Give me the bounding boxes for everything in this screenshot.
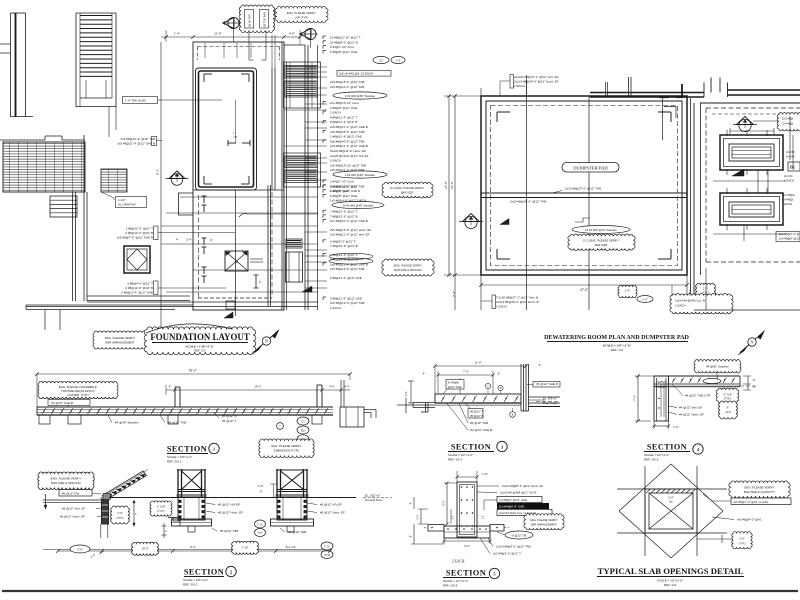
svg-text:(TYP.): (TYP.) <box>739 543 746 546</box>
svg-text:SECTION: SECTION <box>446 569 486 578</box>
svg-text:5 #8@8" @12" OAE: 5 #8@8" @12" OAE <box>330 194 357 198</box>
svg-text:1'-4": 1'-4" <box>625 289 630 293</box>
svg-text:#5 @12" H/V EF: #5 @12" H/V EF <box>320 503 342 507</box>
plan outer rect <box>193 42 284 310</box>
svg-text:2'-0": 2'-0" <box>739 537 744 541</box>
svg-text:2'-1": 2'-1" <box>416 514 420 519</box>
svg-text:REF: 2/S-2: REF: 2/S-2 <box>167 459 182 463</box>
svg-text:1'-0: 1'-0 <box>396 58 401 62</box>
svg-text:#5 @12" T&B: #5 @12" T&B <box>288 530 306 534</box>
svg-text:7 #8@12'-6" @12" T: 7 #8@12'-6" @12" T <box>330 210 358 214</box>
svg-text:1 EACH: 1 EACH <box>514 84 525 88</box>
svg-text:(5) @12" OAE B: (5) @12" OAE B <box>536 382 558 386</box>
section4 standee cloud <box>694 360 741 373</box>
svg-text:4x3 #8@7'-0" @A1 (1 side): 4x3 #8@7'-0" @A1 (1 side) <box>733 500 768 504</box>
svg-text:ENG. PLEASE VERIFY: ENG. PLEASE VERIFY <box>394 264 422 268</box>
svg-text:#5 @12" Horiz. EF: #5 @12" Horiz. EF <box>320 511 345 515</box>
dewatering bottom cloud <box>696 283 716 296</box>
pad black triangle <box>500 219 509 225</box>
svg-text:2x7 #8@11'-4" @12" OAE B: 2x7 #8@11'-4" @12" OAE B <box>330 219 368 223</box>
section5 bottom dim <box>444 540 490 542</box>
pad cloud verify <box>568 234 635 251</box>
svg-text:3x5 (4) #A5 @4. 15 EACH: 3x5 (4) #A5 @4. 15 EACH <box>339 72 373 76</box>
section4 cloud chain <box>716 388 739 403</box>
svg-text:Brick Ledge: Brick Ledge <box>543 401 558 405</box>
svg-text:2 #4@7'-10" Cont.: 2 #4@7'-10" Cont. <box>330 45 355 49</box>
svg-text:2x5 #8@12'-6" @12" TAB: 2x5 #8@12'-6" @12" TAB <box>330 267 364 271</box>
svg-text:2x5 #8@12'-6" @12" TAB: 2x5 #8@12'-6" @12" TAB <box>330 301 364 305</box>
section1 sub dims <box>166 389 350 391</box>
dewatering bottom notes cloud <box>670 294 733 315</box>
oval standee note 3 <box>332 201 384 208</box>
svg-text:ENG. PLEASE VERIFY: ENG. PLEASE VERIFY <box>105 336 135 340</box>
section2 step corner <box>168 517 180 519</box>
svg-text:3 #8@4'-6" @12" T: 3 #8@4'-6" @12" T <box>127 282 153 286</box>
svg-text:21'-8": 21'-8" <box>450 181 454 189</box>
dewatering bottom dashed <box>694 309 800 311</box>
svg-text:ENG. PLEASE VERIFY: ENG. PLEASE VERIFY <box>51 477 81 481</box>
svg-text:10 #8@12'-10" @12" T: 10 #8@12'-10" @12" T <box>330 36 361 40</box>
section1 cloud verify dimension <box>259 439 314 458</box>
svg-text:REF: S-2: REF: S-2 <box>194 349 206 353</box>
stair ladder top <box>75 13 77 107</box>
section4 left dim <box>637 376 639 421</box>
cloud verify bar arrangement title <box>93 331 147 349</box>
left margin ticks <box>0 43 11 45</box>
section1 wall stub A <box>174 387 176 407</box>
rebar cluster box 2 <box>284 153 321 187</box>
section5 right wing <box>490 525 504 532</box>
svg-text:1x8 #8@11'-4" @12" OAE B: 1x8 #8@11'-4" @12" OAE B <box>330 262 368 266</box>
pit vertical centerline <box>235 100 237 143</box>
svg-text:#5 @12" EW: #5 @12" EW <box>62 491 79 495</box>
svg-text:7'-6": 7'-6" <box>633 395 637 401</box>
svg-text:8 #8@11'-4" @12" B: 8 #8@11'-4" @12" B <box>330 120 357 124</box>
section1 wall stub B <box>316 385 318 407</box>
dewatering dashed boundary <box>706 107 800 109</box>
ovals around two rows <box>329 253 373 259</box>
svg-text:T-2x20 #8@27'-1" @12" Vert. B: T-2x20 #8@27'-1" @12" Vert. B <box>496 296 538 300</box>
pad vertical line <box>526 80 528 310</box>
pad1 top dim line <box>730 130 774 132</box>
X column pad in plan <box>225 251 248 271</box>
svg-text:4 #8@12'-6" @12" T: 4 #8@12'-6" @12" T <box>330 253 358 257</box>
rebar cluster box 1 <box>284 62 321 108</box>
svg-text:2'-0": 2'-0" <box>642 297 647 301</box>
cloud verify lap <box>275 6 328 22</box>
section1 wall stub C <box>340 380 342 407</box>
section1 footing stubs <box>39 415 50 424</box>
svg-text:G.C./ENG. PLEASE VERIFY: G.C./ENG. PLEASE VERIFY <box>390 186 425 190</box>
svg-text:#5 @12" TAB: #5 @12" TAB <box>470 421 488 425</box>
svg-text:27'-4": 27'-4" <box>580 288 588 292</box>
svg-text:10 #8@8'-0" @12" B: 10 #8@8'-0" @12" B <box>330 40 358 44</box>
svg-text:1 EACH: 1 EACH <box>330 111 341 115</box>
svg-text:7'-10": 7'-10" <box>241 546 248 550</box>
svg-text:Sq.: Sq. <box>669 500 673 504</box>
svg-text:2x2x3 #4 @A05 Cov. B: 2x2x3 #4 @A05 Cov. B <box>675 299 705 303</box>
plan interior horizontals <box>193 189 284 191</box>
section5 top dim <box>457 476 477 478</box>
svg-text:#5 @12" B: #5 @12" B <box>222 414 236 418</box>
svg-text:COATED (TYP.): COATED (TYP.) <box>67 393 88 397</box>
svg-text:6": 6" <box>260 490 263 494</box>
svg-text:3 #8@12'-6" @12" B: 3 #8@12'-6" @12" B <box>125 286 153 290</box>
pit corner ticks <box>204 73 212 75</box>
svg-text:11'-0": 11'-0" <box>214 32 221 36</box>
svg-text:2 #8@8" @12" OAE: 2 #8@8" @12" OAE <box>330 106 357 110</box>
sump pit rounded rect <box>196 68 257 190</box>
svg-text:#5 @12" T: #5 @12" T <box>222 419 236 423</box>
small grating <box>101 169 127 192</box>
svg-text:2x2 #8: 2x2 #8 <box>786 150 795 154</box>
svg-text:SECTION: SECTION <box>167 445 207 454</box>
svg-text:ENG. PLEASE VERIFY: ENG. PLEASE VERIFY <box>744 486 774 490</box>
section3 boxed labels top <box>446 380 464 390</box>
extension stubs above wall <box>605 82 607 97</box>
svg-text:2x5 #8@15'-10" @12" TAB: 2x5 #8@15'-10" @12" TAB <box>330 163 366 167</box>
DE label right edge <box>788 162 800 171</box>
svg-text:11": 11" <box>481 515 485 519</box>
section4 bottom dim <box>654 425 669 427</box>
slab detail grid lines <box>617 488 727 490</box>
section2 ground line left <box>43 499 102 501</box>
svg-text:2x3 #4: 2x3 #4 <box>784 174 793 178</box>
wall above dumpster <box>590 92 704 94</box>
pad standee oval <box>572 226 630 234</box>
svg-text:ENG. PLEASE VERIFY: ENG. PLEASE VERIFY <box>271 444 301 448</box>
svg-text:BAR SIZE & SPACING: BAR SIZE & SPACING <box>51 481 81 485</box>
section1 circle chain <box>297 417 309 425</box>
section diamond top1 <box>228 17 239 28</box>
svg-text:#4 @12" Vert. EF: #4 @12" Vert. EF <box>679 406 702 410</box>
svg-text:3 #8@12'-6" @12" B: 3 #8@12'-6" @12" B <box>330 258 358 262</box>
svg-text:EL: 559'+6": EL: 559'+6" <box>543 397 557 401</box>
svg-text:16 #1 #A5 @45° Standee: 16 #1 #A5 @45° Standee <box>585 228 617 232</box>
vertical rebar label boxes top cloud <box>239 5 275 33</box>
svg-text:(5) @12" OAE B: (5) @12" OAE B <box>51 401 73 405</box>
svg-text:REF: 3/S-2: REF: 3/S-2 <box>183 582 198 586</box>
pad top extension lines <box>480 88 482 96</box>
svg-text:3x5 #8@7'-6" @12" OAE B: 3x5 #8@7'-6" @12" OAE B <box>117 236 153 240</box>
DUMPSTER PAD label <box>562 163 619 173</box>
north arrow left <box>255 331 279 352</box>
section2 ground continues <box>43 549 332 551</box>
svg-text:2x4 #8@8" @12" B: 2x4 #8@8" @12" B <box>779 237 800 241</box>
section marker diamond left <box>166 178 189 180</box>
slab detail diamond <box>619 464 671 511</box>
svg-text:4x2x8 (8) 5x21 @12" S/V EF: 4x2x8 (8) 5x21 @12" S/V EF <box>330 154 369 158</box>
svg-text:SECTION: SECTION <box>647 443 687 452</box>
svg-text:1 #8@11'-4" @12" OAE: 1 #8@11'-4" @12" OAE <box>330 135 362 139</box>
svg-text:7'-0": 7'-0" <box>117 511 123 515</box>
svg-text:4 #1 #A5 @45° Standee: 4 #1 #A5 @45° Standee <box>345 173 376 177</box>
left dim extent line <box>160 42 162 330</box>
svg-text:2x5 #8@26'-6" @12" TAB: 2x5 #8@26'-6" @12" TAB <box>330 130 364 134</box>
diamond-in-square pad <box>124 246 150 273</box>
svg-text:1'-4": 1'-4" <box>174 32 180 36</box>
svg-text:1 EACH: 1 EACH <box>496 305 507 309</box>
svg-text:16'-2": 16'-2" <box>254 385 261 389</box>
svg-text:1 EACH: 1 EACH <box>784 179 794 183</box>
svg-text:3'-6": 3'-6" <box>464 544 470 548</box>
svg-text:2x3 #8@5'-6" @12" T: 2x3 #8@5'-6" @12" T <box>493 552 521 556</box>
svg-text:8'-4": 8'-4" <box>190 545 196 549</box>
large grating top-left <box>3 142 85 192</box>
svg-text:Sq: Sq <box>235 260 239 264</box>
section1 slab <box>37 406 333 408</box>
svg-text:7'-2": 7'-2" <box>463 370 469 374</box>
svg-text:REF: S-5: REF: S-5 <box>611 348 624 352</box>
section5 left dims <box>446 483 448 524</box>
svg-text:7 #8@12'-6" @12" B: 7 #8@12'-6" @12" B <box>330 214 358 218</box>
section5 oval T/B <box>505 531 533 539</box>
section4 right dims <box>747 376 749 390</box>
section2 tower A <box>177 469 179 497</box>
svg-text:2" CLR: 2" CLR <box>157 505 166 509</box>
svg-text:11": 11" <box>451 515 455 519</box>
svg-text:#5 @12" T: #5 @12" T <box>470 410 484 414</box>
svg-text:2x5 #8@11'-4" @12" OAE B: 2x5 #8@11'-4" @12" OAE B <box>330 144 368 148</box>
section3 left dim <box>410 381 412 403</box>
dewatering diamond marker <box>733 124 757 126</box>
svg-text:2x5 #8@12'-6" @12" TAB: 2x5 #8@12'-6" @12" TAB <box>121 137 155 141</box>
section3 top dims <box>435 365 526 367</box>
oval standee note 2 <box>333 171 387 178</box>
dewatering room top line <box>700 102 800 104</box>
AL GRATING label <box>101 192 114 198</box>
svg-text:2x2 #8@4: 2x2 #8@4 <box>782 193 795 197</box>
svg-text:1 EACH: 1 EACH <box>330 159 341 163</box>
svg-text:2" CL: 2" CL <box>257 523 264 526</box>
svg-text:4": 4" <box>423 372 426 376</box>
svg-text:2x4 #8@: 2x4 #8@ <box>782 122 793 126</box>
svg-text:#4 @12" T&B CTR: #4 @12" T&B CTR <box>685 394 711 398</box>
svg-text:1 1/2": 1 1/2" <box>118 198 126 202</box>
svg-text:BAR SIZE & SPACING: BAR SIZE & SPACING <box>394 268 421 272</box>
section4 slab <box>654 375 740 377</box>
section2 vert dim <box>133 501 135 526</box>
plan top dimension line <box>161 36 301 38</box>
svg-text:2x5 #8@12'-6" @12" TAB: 2x5 #8@12'-6" @12" TAB <box>330 185 364 189</box>
svg-text:BAR ARRANGEMENT: BAR ARRANGEMENT <box>531 523 558 527</box>
section3 labels below <box>468 409 483 419</box>
plan right wall verticals <box>271 68 273 190</box>
svg-text:FOUNDATION LAYOUT: FOUNDATION LAYOUT <box>150 332 249 342</box>
svg-text:2x2x20 #8@27'-1" @12" Vert. EF: 2x2x20 #8@27'-1" @12" Vert. EF <box>514 75 559 79</box>
plan left notch <box>179 193 194 215</box>
svg-text:6": 6" <box>169 385 172 389</box>
svg-text:C1: C1 <box>301 419 305 423</box>
boxed note 3x5 <box>337 71 391 77</box>
dewatering inter-pad lines <box>713 180 786 182</box>
svg-text:DEWATERING ROOM PLAN AND DUMPS: DEWATERING ROOM PLAN AND DUMPSTER PAD <box>544 335 689 341</box>
svg-text:ENG. PLEASE VERIFY: ENG. PLEASE VERIFY <box>530 518 558 522</box>
svg-text:LAP (TYP.): LAP (TYP.) <box>295 15 309 19</box>
svg-text:#5 @12" B: #5 @12" B <box>470 414 484 418</box>
svg-text:1 EACH: 1 EACH <box>330 306 341 310</box>
svg-text:3 #8@11'-4" @12" OAE: 3 #8@11'-4" @12" OAE <box>121 291 153 295</box>
svg-text:#5 @12" Horiz. EF: #5 @12" Horiz. EF <box>60 515 85 519</box>
svg-text:(5) @12" OAE B: (5) @12" OAE B <box>470 428 492 432</box>
pads tick marks <box>726 130 728 136</box>
rebar tick symbols on dashed line <box>203 196 205 203</box>
svg-text:SCALE = 1/8"=1'-0": SCALE = 1/8"=1'-0" <box>603 344 632 348</box>
svg-text:3 #8@12'-6" @12" T: 3 #8@12'-6" @12" T <box>126 227 154 231</box>
svg-text:2x5 #8@15'-6" @12" Horiz. EF: 2x5 #8@15'-6" @12" Horiz. EF <box>330 228 371 232</box>
svg-text:EL: 552'+6": EL: 552'+6" <box>365 494 380 498</box>
black triangle below plan <box>224 312 233 318</box>
dumpster pad dashed inner <box>491 106 678 266</box>
svg-text:1'-6": 1'-6" <box>404 391 408 397</box>
dewatering door jambs <box>703 83 705 98</box>
slab detail square <box>645 489 697 533</box>
svg-text:Ground Floor: Ground Floor <box>365 498 383 502</box>
svg-text:5x8 #8@40'-6" @12" TAB: 5x8 #8@40'-6" @12" TAB <box>330 139 364 143</box>
svg-text:(4) #8@2" @12" OAE: (4) #8@2" @12" OAE <box>499 498 527 502</box>
svg-text:SECTION: SECTION <box>451 443 491 452</box>
pad mid horizontal line <box>481 192 687 194</box>
pad section diamond left <box>459 221 483 223</box>
svg-text:CLR: CLR <box>725 410 730 414</box>
section2 cloud chain right <box>321 542 333 550</box>
section2 P GR cloud <box>150 501 172 516</box>
plan bottom lines <box>87 301 318 303</box>
svg-text:(TYP.): (TYP.) <box>724 397 731 401</box>
left building wall verticals <box>72 192 74 301</box>
section3 slab <box>435 394 521 403</box>
north arrow right <box>740 332 764 353</box>
svg-text:2 EACH: 2 EACH <box>452 560 465 564</box>
svg-text:2" CL: 2" CL <box>324 545 331 548</box>
svg-text:5'-6": 5'-6" <box>442 500 446 506</box>
svg-text:11'-0": 11'-0" <box>474 361 481 365</box>
wall triple line top-left <box>10 13 12 117</box>
svg-text:(1) #A4@6'-6" OAE: (1) #A4@6'-6" OAE <box>499 505 524 509</box>
svg-text:2x2 #8@: 2x2 #8@ <box>782 117 793 121</box>
svg-text:8": 8" <box>409 535 413 537</box>
svg-text:G.C./ENG. PLEASE VERIFY: G.C./ENG. PLEASE VERIFY <box>583 239 619 243</box>
svg-text:2x5 #8@11'-4" @12" OAE B: 2x5 #8@11'-4" @12" OAE B <box>117 142 155 146</box>
svg-text:4": 4" <box>210 238 213 242</box>
svg-text:(TYP.): (TYP.) <box>157 509 165 513</box>
svg-text:1 EACH: 1 EACH <box>675 304 685 308</box>
pad left dims <box>448 96 450 275</box>
dewatering room left wall <box>690 98 692 310</box>
1-6 THK SLAB label <box>123 97 158 104</box>
section1 right footing <box>340 407 364 427</box>
section1 cloud consider epoxy <box>38 381 118 398</box>
svg-text:2x4 #8@: 2x4 #8@ <box>782 198 793 202</box>
small ovals below pad <box>618 285 637 297</box>
svg-text:10'-3": 10'-3" <box>141 547 148 551</box>
section2 EW box <box>59 490 92 497</box>
svg-text:6": 6" <box>727 406 729 410</box>
svg-text:4'-0": 4'-0" <box>344 385 350 389</box>
svg-text:(4 #4@8: (4 #4@8 <box>448 381 459 385</box>
svg-text:2x2 #8@4'-6" @12" B: 2x2 #8@4'-6" @12" B <box>779 232 800 236</box>
section2 diagonal stringer <box>103 471 147 500</box>
pad corner brackets <box>497 111 510 113</box>
svg-text:#4 @40" Standee: #4 @40" Standee <box>115 421 139 425</box>
svg-text:(TYP.): (TYP.) <box>117 517 124 520</box>
rebar cluster box 3 <box>286 239 302 248</box>
svg-text:5 #8@11'-4" @12" OAE: 5 #8@11'-4" @12" OAE <box>330 276 362 280</box>
svg-text:B2: B2 <box>301 428 305 432</box>
svg-text:REF: S-6: REF: S-6 <box>664 583 677 587</box>
svg-text:#5 @12" T&B: #5 @12" T&B <box>220 529 238 533</box>
pedestal box right <box>286 252 303 282</box>
svg-text:#4 @12" Horiz. EF: #4 @12" Horiz. EF <box>679 413 704 417</box>
section3 right wall <box>520 364 522 411</box>
svg-text:7 #8@12'-6" @12" B: 7 #8@12'-6" @12" B <box>330 244 358 248</box>
svg-text:10 #1 #A5 @45° Standee: 10 #1 #A5 @45° Standee <box>343 203 374 207</box>
svg-text:2 #8@8" @12" OAE B: 2 #8@8" @12" OAE B <box>330 189 360 193</box>
svg-text:#5 @12" Vert. EF: #5 @12" Vert. EF <box>62 507 85 511</box>
stub below plan <box>226 301 235 309</box>
plan vertical dashed lines <box>198 195 200 298</box>
svg-text:AL GRATING: AL GRATING <box>118 203 137 207</box>
oval standee note 1 <box>333 92 387 99</box>
slab detail cloud verify <box>729 481 790 498</box>
svg-text:5x2x8 #8@11'-6" Horiz. EF: 5x2x8 #8@11'-6" Horiz. EF <box>330 149 366 153</box>
svg-text:T: T <box>279 424 281 428</box>
svg-text:27'-8": 27'-8" <box>444 181 448 189</box>
slab detail boxed note <box>731 498 791 505</box>
svg-text:2x5 #8@15'-6" @12" TAB: 2x5 #8@15'-6" @12" TAB <box>330 80 364 84</box>
equipment pad 1 <box>720 135 783 170</box>
dumpster pad outer rect <box>481 96 687 275</box>
svg-text:2'-4": 2'-4" <box>186 238 192 242</box>
svg-text:4'-6": 4'-6" <box>289 32 295 36</box>
small stair flight left <box>50 196 77 217</box>
svg-text:#4 @40" Standee: #4 @40" Standee <box>706 365 729 369</box>
svg-text:5 #8@8" @12" OAE: 5 #8@8" @12" OAE <box>330 50 357 54</box>
svg-text:6": 6" <box>753 385 755 389</box>
svg-text:2x1 #8@16'-10" Cont.: 2x1 #8@16'-10" Cont. <box>330 101 360 105</box>
section2 bottom dim line <box>58 550 330 552</box>
svg-text:REF: 3/S-2: REF: 3/S-2 <box>448 457 463 461</box>
svg-text:7'-4": 7'-4" <box>452 291 456 297</box>
section1 boxed note <box>48 400 90 406</box>
svg-text:DUMPSTER PAD: DUMPSTER PAD <box>573 166 608 171</box>
svg-text:2x2x3 #8@26'-6" @12" Horiz. B: 2x2x3 #8@26'-6" @12" Horiz. B <box>496 300 539 304</box>
pad tick right <box>255 275 257 288</box>
svg-text:#5 @12" H/V EF: #5 @12" H/V EF <box>218 503 240 507</box>
svg-text:8 #8@11'-4" @12" T: 8 #8@11'-4" @12" T <box>330 115 357 119</box>
dewatering right leader texts <box>777 113 800 131</box>
svg-text:2 #8@12'-6" @12" B: 2 #8@12'-6" @12" B <box>125 231 153 235</box>
svg-text:2x5 #8@11'-4" @12" TAB: 2x5 #8@11'-4" @12" TAB <box>330 85 364 89</box>
section2 wall column <box>102 499 109 524</box>
drawing border bottom <box>2 590 798 592</box>
dewatering black triangle <box>732 169 744 176</box>
svg-text:1'-6": 1'-6" <box>673 425 679 429</box>
svg-text:1'-6" THK SLAB: 1'-6" THK SLAB <box>125 99 146 103</box>
pad bottom dim <box>481 284 687 286</box>
svg-text:C2: C2 <box>379 58 383 62</box>
section5 pedestal <box>457 482 477 537</box>
section4 wall <box>653 376 655 421</box>
svg-text:2x2x3 #4 @404 @12" S/V B: 2x2x3 #4 @404 @12" S/V B <box>500 491 537 495</box>
section3 right slab <box>529 396 561 398</box>
svg-text:1'-0": 1'-0" <box>703 287 708 291</box>
slab detail 2-0 TYP cloud <box>732 532 752 549</box>
svg-text:@12" OAE: @12" OAE <box>448 385 462 389</box>
svg-text:(4 @12" T/B: (4 @12" T/B <box>512 533 527 537</box>
svg-text:(5) TOP BAR: (5) TOP BAR <box>263 12 267 27</box>
svg-text:5 #8@5'-0" @12" T: 5 #8@5'-0" @12" T <box>330 239 356 243</box>
